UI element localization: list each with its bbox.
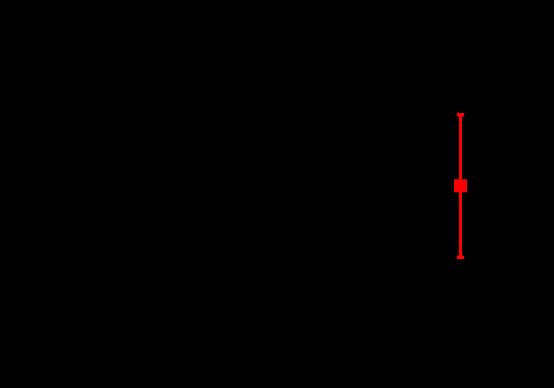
error bar vertical line: [459, 113, 462, 259]
error bar bottom cap: [457, 256, 464, 260]
data point square marker: [454, 179, 467, 192]
error bar top cap: [457, 113, 464, 117]
